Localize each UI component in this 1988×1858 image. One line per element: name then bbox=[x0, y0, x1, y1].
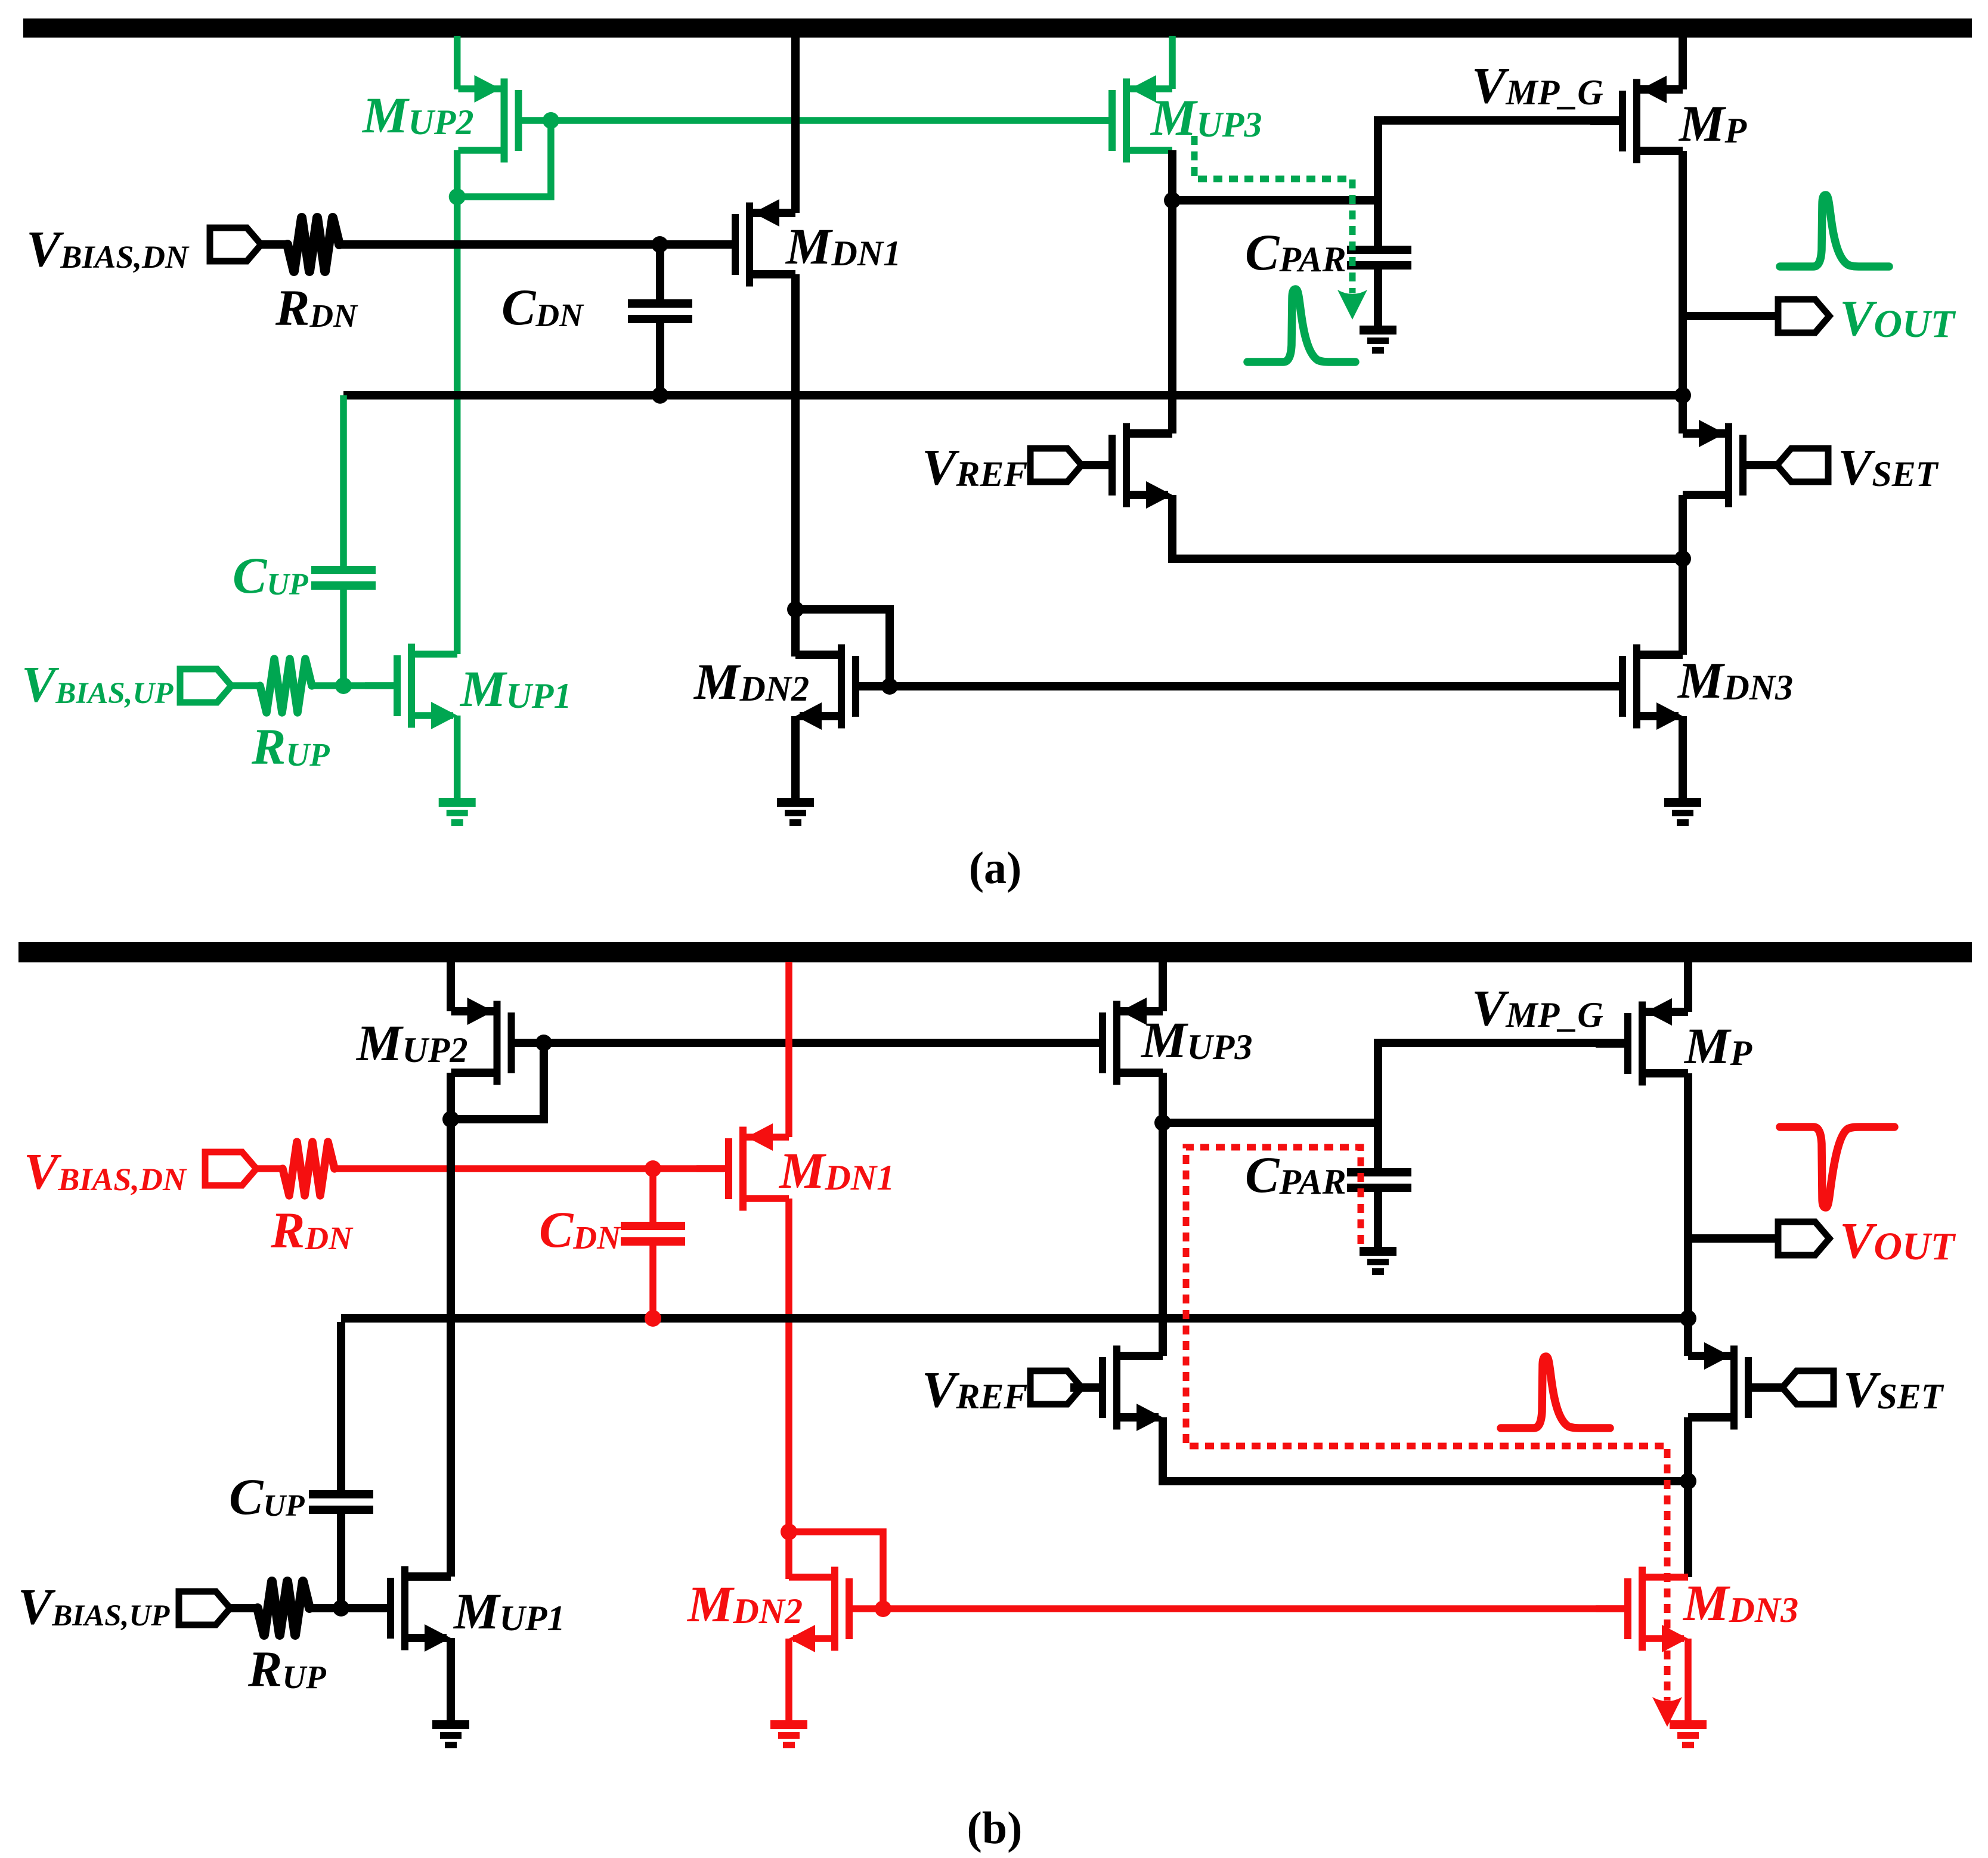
label MUP2 (b) bbox=[355, 1014, 467, 1072]
junction CDN bottom node (a) bbox=[652, 387, 668, 404]
wire VSETb gate to port bbox=[1780, 1383, 1782, 1392]
wire MUP3b drain down bbox=[1159, 1073, 1167, 1356]
wire MDN2b drain link bbox=[785, 1532, 792, 1579]
wire CDNb top lead bbox=[649, 1169, 657, 1222]
label VREF (a) bbox=[922, 438, 1027, 496]
wire VOUT (b) bbox=[1688, 1234, 1779, 1243]
label (b) bbox=[967, 1803, 1023, 1853]
ground MUP1 (a) bbox=[439, 798, 476, 826]
label VREF (b) bbox=[922, 1361, 1027, 1418]
wire VOUT (a) bbox=[1683, 312, 1779, 320]
label VOUT (a) bbox=[1840, 289, 1956, 346]
wire MPb source from rail bbox=[1684, 958, 1692, 1012]
transistor MDN3 bbox=[1590, 645, 1683, 730]
label CDN (b) bbox=[539, 1201, 622, 1258]
wire MDN1 drain down bbox=[791, 274, 800, 609]
ground CPAR (a) bbox=[1360, 326, 1396, 354]
transistor MDN2 bbox=[795, 645, 888, 730]
junction MUP3b drain node bbox=[1154, 1114, 1171, 1131]
wire node A to MPb gate bbox=[1163, 1043, 1624, 1123]
wire VBIAS,UP to RUP bbox=[231, 682, 260, 689]
label MUP2 bbox=[361, 86, 473, 144]
wire CDN top lead bbox=[656, 244, 664, 299]
ground MDN2 (a) bbox=[777, 798, 814, 826]
label MUP3 (b) bbox=[1140, 1011, 1252, 1069]
label MDN1 (b) bbox=[778, 1142, 894, 1199]
junction MPb drain node bbox=[1680, 1310, 1696, 1327]
wire CPARb bottom lead bbox=[1374, 1192, 1382, 1249]
junction MUP2b drain node bbox=[442, 1111, 459, 1128]
wire MP source from rail bbox=[1679, 36, 1687, 89]
wire VREFb port to gate bbox=[1082, 1383, 1099, 1392]
junction VBIAS,UP node (a) bbox=[335, 677, 352, 694]
label CDN (a) bbox=[501, 278, 584, 336]
junction MDN2b drain node bbox=[781, 1523, 797, 1540]
transistor MUP1 bbox=[365, 644, 457, 730]
resistor RUP (b) bbox=[258, 1581, 309, 1635]
wire VSET source stub (a) bbox=[1679, 395, 1687, 433]
transistor MDN1 (b) bbox=[696, 1123, 789, 1211]
wire MUP2 gate-drain link bbox=[457, 120, 551, 197]
wire RUP to MUP1 gate bbox=[312, 682, 394, 689]
junction MUP2 drain node bbox=[449, 188, 466, 205]
wire MUP3 drain stub bbox=[1130, 147, 1172, 154]
label MUP3 bbox=[1150, 89, 1262, 146]
label MDN2 (a) bbox=[693, 653, 809, 710]
wire MDN2 drain link bbox=[791, 609, 800, 657]
transistor MDN1 bbox=[703, 199, 795, 287]
label CUP (a) bbox=[233, 547, 309, 604]
junction MDN2b gate node bbox=[875, 1600, 891, 1617]
wire MDN1 source from rail bbox=[791, 36, 800, 213]
transistor MP (b) bbox=[1596, 998, 1688, 1086]
transistor VREF transistor (a) bbox=[1080, 423, 1172, 509]
wire MDN3b source down bbox=[1684, 1639, 1692, 1722]
label CPAR (a) bbox=[1245, 224, 1346, 281]
label VSET (b) bbox=[1843, 1361, 1944, 1418]
junction CDNb bottom node bbox=[645, 1310, 661, 1327]
port VREF (a) bbox=[1030, 448, 1082, 482]
dashed current path (b) bbox=[1186, 1147, 1682, 1727]
wire MUP1 source down bbox=[454, 716, 461, 800]
label RUP (a) bbox=[251, 718, 330, 775]
port VBIAS,DN (a) bbox=[210, 228, 261, 261]
transistor MDN3 (b) bbox=[1596, 1567, 1688, 1653]
label VBIAS,UP (b) bbox=[18, 1578, 170, 1635]
wire MUP3 source from rail bbox=[1169, 36, 1176, 89]
dashed current path (a) bbox=[1194, 136, 1367, 320]
wire VSET source down bbox=[1679, 495, 1687, 559]
junction MUP3 drain node (a) bbox=[1164, 192, 1181, 209]
junction MUP2 gate node bbox=[543, 112, 559, 129]
junction MUP2b gate node bbox=[535, 1035, 552, 1051]
ground MUP1 (b) bbox=[432, 1720, 469, 1748]
resistor RDN (b) bbox=[283, 1142, 335, 1196]
resistor RDN (a) bbox=[287, 218, 339, 271]
label MP (a) bbox=[1678, 95, 1747, 152]
port VBIAS,DN (b) bbox=[205, 1152, 256, 1185]
capacitor CPAR (b) bbox=[1347, 1168, 1411, 1192]
junction VBIAS,DNb node bbox=[645, 1160, 661, 1177]
port VREF (b) bbox=[1030, 1371, 1082, 1404]
transistor MUP2 (b) bbox=[451, 998, 544, 1085]
resistor RUP (a) bbox=[260, 659, 312, 713]
transistor MUP3 bbox=[1080, 75, 1172, 163]
wire CDNb bottom lead bbox=[649, 1246, 657, 1318]
wire MDN3 source down bbox=[1679, 716, 1687, 800]
wire CPAR bottom lead (a) bbox=[1374, 270, 1382, 327]
wire MUP3 drain down bbox=[1168, 150, 1176, 433]
port VBIAS,UP (b) bbox=[179, 1591, 230, 1625]
label MP (b) bbox=[1683, 1017, 1752, 1074]
junction tail node (b) bbox=[1680, 1473, 1696, 1490]
wire MDN2-MDN3 gate line bbox=[890, 682, 1620, 690]
wire MUP2b source from rail bbox=[447, 958, 455, 1011]
wire MDN1b drain down bbox=[785, 1199, 792, 1532]
wire MP drain down bbox=[1679, 151, 1687, 395]
junction MP drain node (a) bbox=[1674, 387, 1691, 404]
wire CUPb top lead bbox=[337, 1322, 345, 1490]
transistor MP bbox=[1590, 76, 1683, 163]
wire VBIAS,DN to RDN bbox=[261, 240, 287, 249]
wire MDN3b drain up bbox=[1684, 1481, 1692, 1577]
transistor VSET transistor (a) bbox=[1683, 420, 1775, 507]
transistor VSET transistor (b) bbox=[1688, 1342, 1780, 1430]
label MUP1 (b) bbox=[453, 1583, 565, 1640]
capacitor CDN (a) bbox=[628, 299, 692, 323]
wire VBIAS,DNb to RDN bbox=[256, 1165, 283, 1172]
wire gate mirror b bbox=[544, 1039, 1099, 1047]
wire RDN to MDN1 gate bbox=[339, 240, 732, 249]
waveform discharge pulse (b) bbox=[1501, 1357, 1610, 1428]
port VOUT (a) bbox=[1778, 299, 1829, 333]
wire VREF source down bbox=[1172, 495, 1683, 559]
wire MUP2b gate-drain link bbox=[451, 1043, 544, 1119]
wire CPARb top lead bbox=[1374, 1123, 1382, 1168]
label VBIAS,UP (a) bbox=[21, 655, 174, 713]
label VBIAS,DN (a) bbox=[26, 220, 190, 277]
wire MUP2b drain over crossing bbox=[447, 1153, 455, 1185]
wire RDNb to MDN1b gate bbox=[335, 1165, 725, 1172]
transistor MUP3 (b) bbox=[1070, 998, 1163, 1085]
label CPAR (b) bbox=[1245, 1146, 1346, 1203]
ground CPAR (b) bbox=[1360, 1247, 1396, 1275]
wire RUPb to MUP1b gate bbox=[309, 1604, 387, 1612]
waveform CPAR pulse (a) bbox=[1247, 289, 1355, 362]
ground MDN2 (b) bbox=[770, 1720, 807, 1748]
wire VBIAS,UPb to RUP bbox=[230, 1604, 258, 1612]
wire VSETb source stub bbox=[1684, 1318, 1692, 1356]
wire MDN2 gate-drain link bbox=[795, 609, 890, 686]
label MDN3 (b) bbox=[1682, 1574, 1798, 1631]
wire MUP2 drain bbox=[454, 150, 461, 654]
port VBIAS,UP (a) bbox=[180, 669, 231, 702]
label CUP (b) bbox=[229, 1468, 305, 1525]
wire MUP2 source from rail bbox=[454, 36, 461, 89]
wire MPb drain down bbox=[1684, 1073, 1692, 1318]
wire VREF port to gate bbox=[1082, 461, 1108, 469]
label VMP_G (b) bbox=[1472, 979, 1603, 1036]
wire VREFb source down bbox=[1163, 1417, 1688, 1481]
transistor MUP1 (b) bbox=[358, 1566, 451, 1652]
port VSET (b) bbox=[1782, 1371, 1834, 1404]
junction MDN2 gate node (a) bbox=[881, 678, 898, 695]
wire CUP bottom lead bbox=[340, 590, 347, 686]
label MUP1 (a) bbox=[459, 660, 571, 717]
wire CUP top lead bbox=[340, 395, 347, 566]
transistor VREF transistor (b) bbox=[1070, 1346, 1163, 1432]
label RDN (b) bbox=[270, 1201, 354, 1259]
svg-text:(a): (a) bbox=[969, 843, 1022, 893]
junction VBIAS,UPb node bbox=[333, 1600, 349, 1617]
wire gate mirror MUP2-MUP3 bbox=[551, 117, 1108, 124]
label MDN1 (a) bbox=[785, 218, 901, 275]
capacitor CPAR (a) bbox=[1347, 246, 1411, 270]
wire VSETb source down bbox=[1684, 1417, 1692, 1481]
waveform VOUT pulse (a) bbox=[1780, 195, 1889, 267]
wire MDN2 source down bbox=[791, 716, 800, 800]
port VOUT (b) bbox=[1778, 1222, 1829, 1255]
label MDN2 (b) bbox=[686, 1575, 803, 1633]
capacitor CDN (b) bbox=[621, 1222, 685, 1246]
junction VBIAS,DN node (a) bbox=[652, 236, 668, 253]
VDD rail (b) bbox=[18, 942, 1972, 962]
wire node A to MP gate bbox=[1172, 120, 1619, 200]
label MDN3 (a) bbox=[1677, 652, 1793, 709]
ground MDN3 (a) bbox=[1664, 798, 1701, 826]
svg-text:(b): (b) bbox=[967, 1803, 1023, 1853]
wire MDN1b source from rail bbox=[785, 962, 792, 1137]
wire VSET gate to port bbox=[1775, 461, 1777, 469]
wire MUP2b drain bbox=[447, 1073, 455, 1577]
capacitor CUP (a) bbox=[311, 566, 376, 590]
label RDN (a) bbox=[275, 279, 358, 336]
VDD rail (a) bbox=[23, 18, 1972, 38]
wire node line b bbox=[341, 1314, 1688, 1323]
transistor MUP2 bbox=[459, 75, 551, 163]
wire MDN2b gate-drain link bbox=[789, 1532, 883, 1609]
wire MUP3b source from rail bbox=[1159, 958, 1167, 1011]
wire CPAR top lead (a) bbox=[1374, 200, 1382, 246]
label VSET (a) bbox=[1838, 438, 1939, 496]
wire MDN2b source down bbox=[785, 1639, 792, 1722]
junction MDN2 drain node (a) bbox=[787, 601, 804, 618]
port VSET (a) bbox=[1777, 448, 1828, 482]
label RUP (b) bbox=[247, 1640, 326, 1698]
label VMP_G (a) bbox=[1472, 57, 1603, 114]
wire CDN bottom lead bbox=[656, 323, 664, 395]
wire MDN2b-MDN3b gate line bbox=[883, 1605, 1625, 1612]
transistor MDN2 (b) bbox=[789, 1567, 881, 1653]
ground MDN3 (b) bbox=[1670, 1720, 1707, 1748]
junction tail node (a) bbox=[1674, 550, 1691, 567]
label (a) bbox=[969, 843, 1022, 893]
waveform VOUT pulse (b) bbox=[1780, 1127, 1894, 1207]
label VBIAS,DN (b) bbox=[24, 1142, 187, 1200]
wire MDN3 drain up bbox=[1679, 559, 1687, 655]
wire CUPb bottom lead bbox=[337, 1514, 345, 1608]
wire node line CDN-MP bbox=[343, 391, 1683, 400]
wire MUP1b source down bbox=[447, 1638, 455, 1722]
label VOUT (b) bbox=[1840, 1212, 1956, 1269]
capacitor CUP (b) bbox=[309, 1490, 373, 1514]
